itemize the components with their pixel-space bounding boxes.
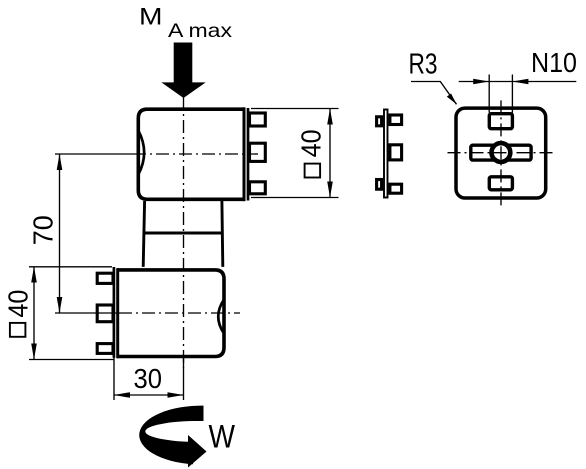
svg-text:70: 70 [27, 215, 58, 245]
svg-text:M: M [139, 4, 163, 31]
svg-text:R3: R3 [409, 49, 438, 81]
svg-text:40: 40 [3, 290, 34, 318]
svg-text:30: 30 [134, 363, 163, 394]
svg-text:W: W [209, 419, 236, 455]
svg-text:N10: N10 [531, 47, 577, 78]
svg-text:40: 40 [295, 129, 326, 157]
svg-text:A max: A max [168, 20, 232, 42]
